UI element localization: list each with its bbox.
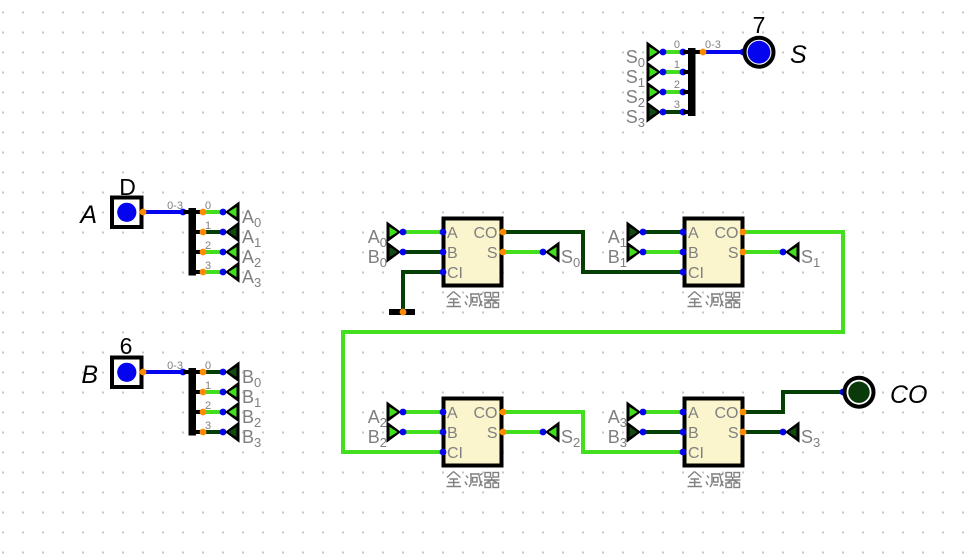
svg-text:A: A [78,201,97,229]
tunnel B3 source [225,421,240,442]
wire U4.S to S3 [743,430,783,434]
svg-text:B: B [688,245,699,262]
node tunnel B1 in [220,389,227,396]
tunnel B2 source [225,401,240,422]
tunnel B0 source [225,361,240,382]
wire splitter B bit 3 [203,430,223,434]
splitter S bar [688,48,696,116]
svg-text:1: 1 [674,59,680,71]
tunnel S3 source [647,101,662,122]
node splitter S root [700,49,707,56]
node S1 tunnel out [660,69,667,76]
svg-text:B: B [81,361,98,389]
node U3.CO [500,409,507,416]
wire S3 to splitter [663,110,683,114]
svg-text:0-3: 0-3 [705,39,721,51]
node tunnel B3 in [220,429,227,436]
svg-text:A: A [688,225,699,242]
wire B2 to U3.B [403,430,443,434]
input pin A (value D) [112,198,142,228]
node U1.S [500,249,507,256]
output pin S (value 7) [745,38,774,67]
node U4.A [680,409,687,416]
label 全减器 U4 [688,472,741,488]
ground constant 0 [389,309,415,315]
wire B1 to U2.B [643,250,683,254]
node pin CO input [840,389,847,396]
node U1.CO [500,229,507,236]
node tunnel A0 in [220,209,227,216]
svg-text:CI: CI [688,445,704,462]
node U3.S [500,429,507,436]
wire S0 to splitter [663,50,683,54]
node ground node [400,309,407,316]
tunnel B3 to U4 [627,421,642,442]
node splitter S spur 3 [680,109,687,116]
tunnel A2 source [225,241,240,262]
wire U3.CO to U4.CI [503,412,683,452]
node S2 tunnel out [660,89,667,96]
node S2 tunnel in [540,429,547,436]
tunnel S2 source [647,81,662,102]
op-amp U3 full-subtractor block 全减器 [444,399,502,466]
wire A0 to U1.A [403,230,443,234]
tunnel A3 to U4 [627,401,642,422]
svg-text:CO: CO [474,225,498,242]
output pin CO [845,378,874,407]
svg-text:B: B [447,425,458,442]
svg-text:CO: CO [890,381,928,409]
svg-text:S: S [790,41,807,69]
wire A2 to U3.A [403,410,443,414]
label 全减器 U1 [447,292,500,308]
node U3.A [440,409,447,416]
svg-text:CI: CI [447,445,463,462]
tunnel S1 sink [785,241,800,262]
node pin B output [140,369,147,376]
node splitter A spur 3 [200,269,207,276]
svg-text:CI: CI [688,265,704,282]
node U3 A wire [400,409,407,416]
wire splitter B bit 2 [203,410,223,414]
node U2 B wire [640,249,647,256]
node S0 tunnel out [660,49,667,56]
node U1 A wire [400,229,407,236]
node U4 A wire [640,409,647,416]
node U4.S [740,429,747,436]
svg-text:2: 2 [674,79,680,91]
svg-text:D: D [119,174,136,200]
node S0 tunnel in [540,249,547,256]
svg-text:CO: CO [474,405,498,422]
svg-text:7: 7 [753,12,766,38]
node U2.A [680,229,687,236]
svg-text:B: B [688,425,699,442]
tunnel A2 to U3 [387,401,402,422]
tunnel S2 sink [545,421,560,442]
wire A3 to U4.A [643,410,683,414]
wire B0 to U1.B [403,250,443,254]
svg-text:6: 6 [120,333,133,359]
node splitter A spur 0 [200,209,207,216]
node U3.CI [440,449,447,456]
svg-text:B: B [447,245,458,262]
node U2.CO [740,229,747,236]
node S3 tunnel out [660,109,667,116]
svg-text:CO: CO [715,225,739,242]
label 全减器 U2 [688,292,741,308]
node U4 B wire [640,429,647,436]
tunnel S0 source [647,41,662,62]
tunnel S0 sink [545,241,560,262]
wire pin B to splitter (0-3) [143,370,183,374]
tunnel B2 to U3 [387,421,402,442]
tunnel B1 source [225,381,240,402]
wire U1.CO to U2.CI [503,232,683,272]
node U2.B [680,249,687,256]
svg-text:A: A [688,405,699,422]
tunnel S3 sink [785,421,800,442]
wire splitter A bit 3 [203,270,223,274]
svg-text:S: S [728,425,739,442]
wire A1 to U2.A [643,230,683,234]
wire U2.S to S1 [743,250,783,254]
node U1 B wire [400,249,407,256]
wire U3.S to S2 [503,430,543,434]
wire splitter S to pin S (0-3) [703,50,743,54]
tunnel A0 source [225,201,240,222]
node tunnel A1 in [220,229,227,236]
node splitter S spur 0 [680,49,687,56]
node splitter A root [180,209,187,216]
wire U1.CI to ground [403,272,443,312]
node U1.B [440,249,447,256]
wire U4.CO to pin CO [743,392,843,412]
tunnel B0 to U1 [387,241,402,262]
node splitter B spur 1 [200,389,207,396]
tunnel A3 source [225,261,240,282]
node U3.B [440,429,447,436]
node tunnel B2 in [220,409,227,416]
svg-text:S: S [728,245,739,262]
svg-text:CO: CO [715,405,739,422]
wire S1 to splitter [663,70,683,74]
tunnel A0 to U1 [387,221,402,242]
op-amp U4 full-subtractor block 全减器 [685,399,743,466]
tunnel A1 source [225,221,240,242]
tunnel A1 to U2 [627,221,642,242]
splitter B bar [189,368,197,436]
wire S2 to splitter [663,90,683,94]
node splitter A spur 1 [200,229,207,236]
op-amp U2 full-subtractor block 全减器 [685,219,743,286]
node tunnel A3 in [220,269,227,276]
node splitter S spur 1 [680,69,687,76]
splitter A bar [189,208,197,276]
svg-text:S: S [487,245,498,262]
node S3 tunnel in [780,429,787,436]
node tunnel B0 in [220,369,227,376]
svg-text:A: A [447,225,458,242]
node U1.CI [440,269,447,276]
node splitter B spur 2 [200,409,207,416]
wire splitter A bit 1 [203,230,223,234]
wire splitter B bit 1 [203,390,223,394]
svg-text:0: 0 [674,39,680,51]
node U3 B wire [400,429,407,436]
node U2.S [740,249,747,256]
svg-text:CI: CI [447,265,463,282]
svg-text:3: 3 [674,99,680,111]
node pin S input [740,49,747,56]
node splitter B spur 0 [200,369,207,376]
node U2 A wire [640,229,647,236]
node U4.CO [740,409,747,416]
op-amp U1 full-subtractor block 全减器 [444,219,502,286]
node splitter A spur 2 [200,249,207,256]
wire splitter B bit 0 [203,370,223,374]
node tunnel A2 in [220,249,227,256]
svg-text:A: A [447,405,458,422]
node U4.CI [680,449,687,456]
node U1.A [440,229,447,236]
node splitter S spur 2 [680,89,687,96]
tunnel B1 to U2 [627,241,642,262]
svg-text:S: S [487,425,498,442]
node U2.CI [680,269,687,276]
tunnel S1 source [647,61,662,82]
input pin B (value 6) [112,358,142,388]
wire splitter A bit 2 [203,250,223,254]
node U4.B [680,429,687,436]
wire pin A to splitter (0-3) [143,210,183,214]
node splitter B spur 3 [200,429,207,436]
wire splitter A bit 0 [203,210,223,214]
wire B3 to U4.B [643,430,683,434]
wire U1.S to S0 [503,250,543,254]
wire U2.CO to U3.CI [343,232,843,452]
node splitter B root [180,369,187,376]
label 全减器 U3 [447,472,500,488]
node S1 tunnel in [780,249,787,256]
node pin A output [140,209,147,216]
